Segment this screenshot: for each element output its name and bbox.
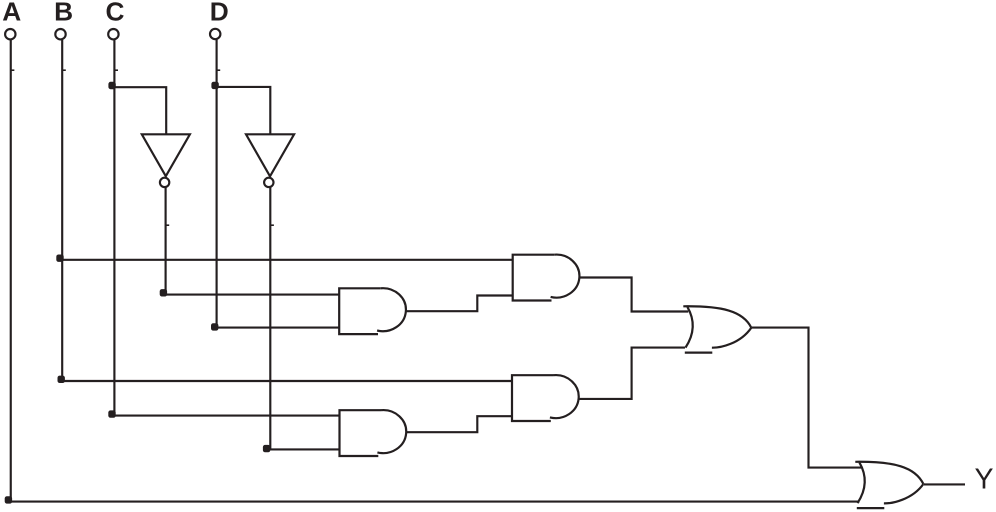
svg-text:D: D: [210, 0, 229, 26]
svg-text:Y: Y: [974, 463, 993, 495]
svg-text:C: C: [106, 0, 125, 26]
svg-text:B: B: [54, 0, 73, 26]
svg-text:A: A: [2, 0, 21, 26]
